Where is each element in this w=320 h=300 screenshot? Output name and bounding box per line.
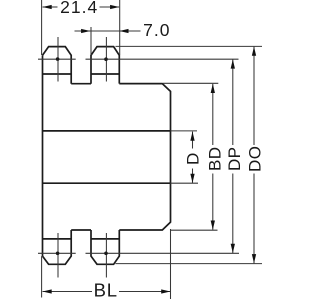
21.4 left arrowhead (43, 5, 52, 9)
svg-text:21.4: 21.4 (60, 0, 98, 17)
DP down arrowhead (231, 244, 235, 253)
bore top line (D) (43, 130, 171, 132)
BL right arrowhead (161, 289, 170, 293)
pitch point dots (56, 57, 108, 255)
bottom tooth 1 vertical centerline (57, 233, 59, 278)
top tooth 1 horizontal centerline (38, 58, 76, 60)
top gap between tooth plates (71, 83, 91, 85)
thin lines: extensions, centerlines, dimension lines (38, 0, 262, 299)
extension line hub face x=170.3 (170, 229, 172, 299)
pitch point dot top tooth 1 (56, 57, 60, 61)
top tooth 1 profile (43, 47, 72, 84)
DO dimension line upper segment (253, 47, 255, 145)
dimension line 21.4 right segment (100, 6, 120, 8)
hub outline with chamfers (119, 84, 170, 230)
bottom tooth 1 horizontal centerline (38, 252, 76, 254)
arrowheads (43, 5, 257, 294)
bottom tooth 2 profile (91, 230, 119, 264)
top tooth 2 profile (91, 47, 119, 84)
svg-text:DP: DP (225, 147, 244, 171)
BL left arrowhead (43, 289, 52, 293)
pitch point dot bottom tooth 1 (56, 252, 60, 256)
svg-text:DO: DO (246, 146, 265, 172)
outer diameter bottom extension (DO) (116, 263, 263, 265)
D dimension line upper segment (192, 132, 194, 149)
svg-text:D: D (184, 153, 203, 165)
DO dimension line lower segment (253, 174, 255, 264)
BD dimension line upper segment (212, 84, 214, 145)
dimension line 21.4 left segment (43, 6, 58, 8)
extension line left x=42.5 (41, 0, 43, 55)
dimension line BL left segment (43, 291, 93, 293)
D up arrowhead (190, 132, 194, 141)
sprocket body outline (43, 47, 171, 265)
DO down arrowhead (252, 254, 256, 263)
BD dimension line lower segment (212, 174, 214, 230)
21.4 right arrowhead (110, 5, 119, 9)
extension line tooth2 right x=119.2 (119, 0, 121, 55)
DP up arrowhead (231, 59, 235, 68)
DP dimension line upper segment (232, 59, 234, 145)
bottom tooth 1 root line (43, 238, 72, 240)
D dimension line lower segment (192, 169, 194, 183)
bore bottom extension (D) (170, 182, 198, 184)
top tooth 2 root line (91, 73, 119, 75)
bottom tooth 2 root line (91, 238, 119, 240)
7.0 left arrowhead (81, 29, 90, 33)
pitch line top / DP extension (86, 58, 239, 60)
extension line tooth2 left x=91 (90, 27, 92, 55)
bottom tooth 2 vertical centerline (105, 233, 107, 278)
DO up arrowhead (252, 47, 256, 56)
BD up arrowhead (211, 84, 215, 93)
pitch line bottom / DP extension (86, 252, 240, 254)
svg-text:7.0: 7.0 (143, 20, 170, 40)
plate left face (42, 55, 44, 256)
BD down arrowhead (211, 221, 215, 230)
hub diameter bottom extension (BD) (171, 229, 218, 231)
bore bottom line (D) (43, 182, 171, 184)
hub diameter top extension (BD) (163, 82, 218, 84)
dimension line 7.0 (75, 30, 141, 32)
bore top extension (D) (170, 130, 197, 132)
pitch point dot top tooth 2 (104, 57, 108, 61)
top tooth 2 vertical centerline (105, 37, 107, 82)
pitch point dot bottom tooth 2 (104, 252, 108, 256)
DP dimension line lower segment (232, 174, 234, 254)
svg-text:BD: BD (206, 147, 225, 171)
bottom gap between tooth plates (71, 229, 91, 231)
top tooth 1 root line (43, 73, 72, 75)
outer diameter top extension (DO) (116, 45, 263, 47)
dimension line BL right segment (119, 291, 171, 293)
D down arrowhead (190, 174, 194, 183)
top tooth 1 vertical centerline (57, 37, 59, 82)
svg-text:BL: BL (94, 280, 118, 300)
7.0 right arrowhead (119, 29, 128, 33)
bottom tooth 1 profile (43, 230, 72, 264)
